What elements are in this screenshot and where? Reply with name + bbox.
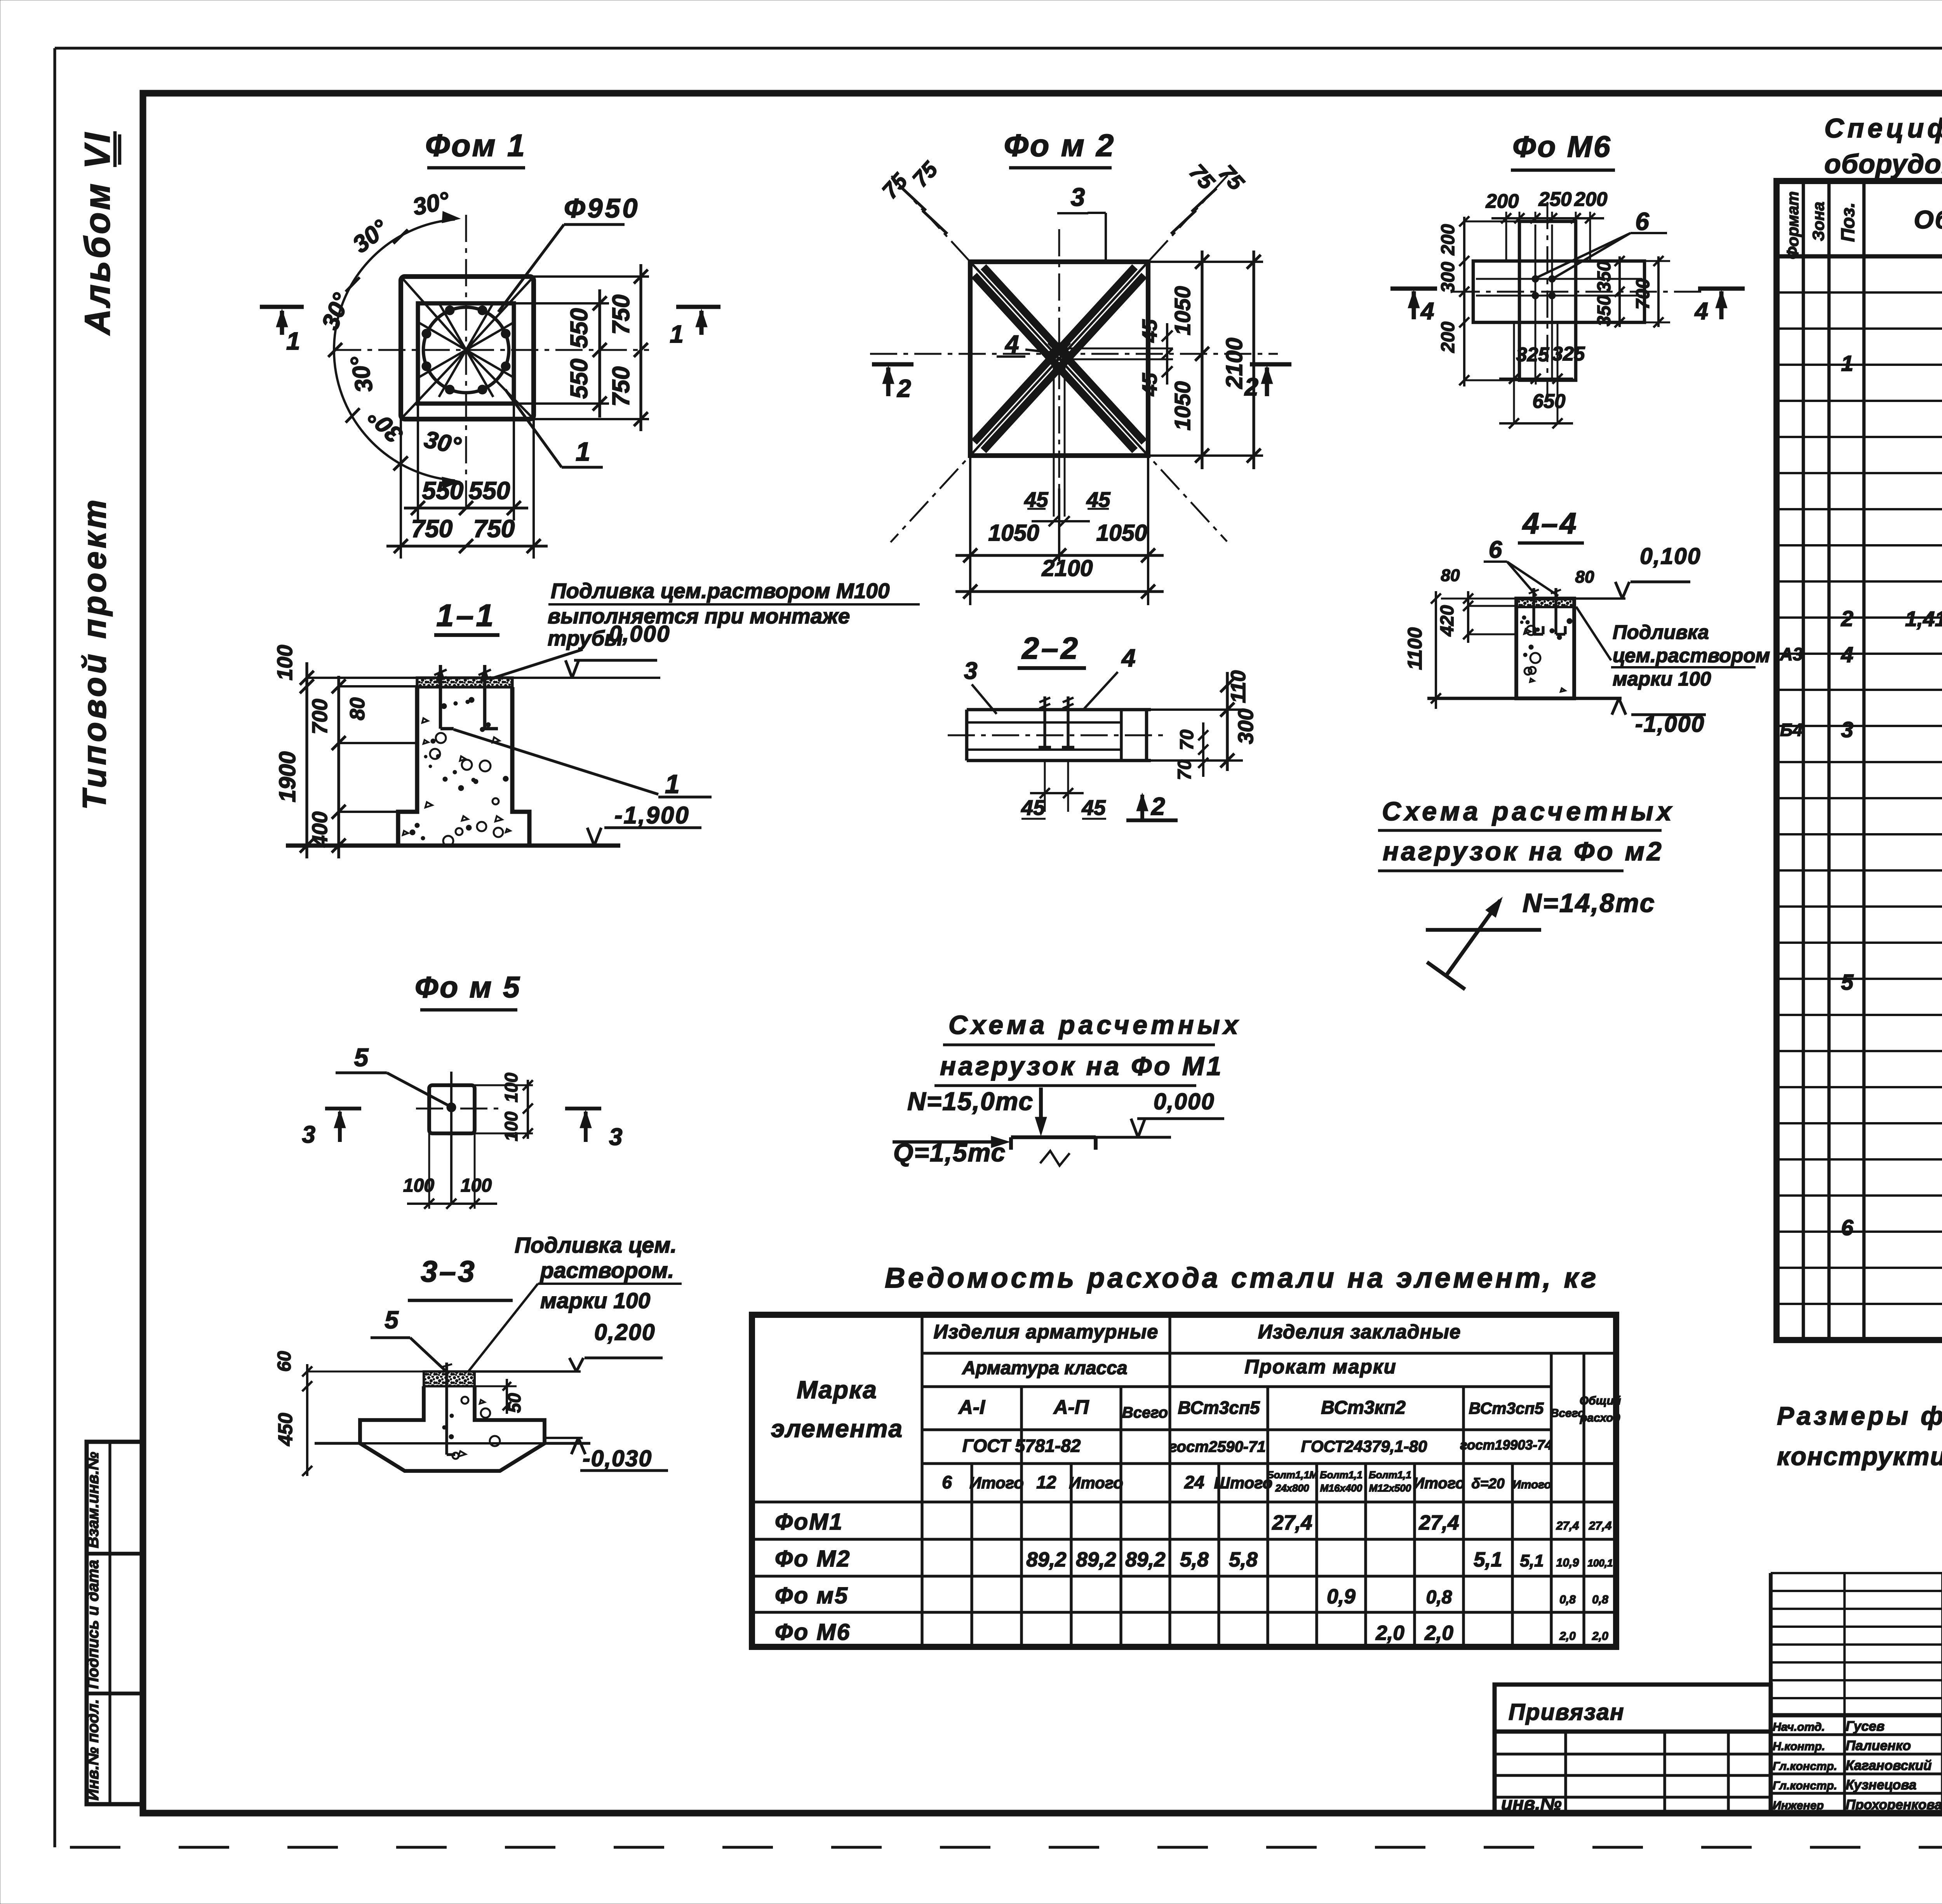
svg-text:5,1: 5,1 [1520,1551,1544,1570]
svg-text:0,100: 0,100 [1640,543,1701,569]
svg-text:Б4: Б4 [1780,720,1803,740]
svg-text:Прокат марки: Прокат марки [1244,1356,1397,1378]
svg-text:27,4: 27,4 [1418,1511,1459,1534]
svg-text:ВСт3кп2: ВСт3кп2 [1321,1398,1406,1418]
svg-text:0,000: 0,000 [1154,1089,1215,1114]
svg-text:750: 750 [411,515,453,543]
svg-text:1050: 1050 [1096,520,1147,546]
svg-text:100,1: 100,1 [1587,1557,1613,1569]
svg-text:Кагановский: Кагановский [1846,1758,1932,1773]
svg-text:Ф950: Ф950 [564,193,640,223]
svg-text:Арматура класса: Арматура класса [962,1358,1127,1378]
svg-text:инв.№: инв.№ [1501,1794,1562,1814]
svg-text:N=14,8тс: N=14,8тс [1523,888,1656,918]
svg-text:Фо м 2: Фо м 2 [1004,128,1115,163]
svg-text:45: 45 [1081,795,1106,820]
svg-text:ГОСТ 5781-82: ГОСТ 5781-82 [962,1436,1081,1456]
svg-text:50: 50 [504,1393,524,1413]
svg-text:Итого: Итого [1413,1475,1465,1492]
svg-text:1: 1 [286,327,300,355]
svg-text:5: 5 [354,1043,369,1072]
svg-text:0,9: 0,9 [1327,1585,1356,1608]
svg-text:Инв.№ подл.: Инв.№ подл. [84,1699,102,1800]
svg-text:марки 100: марки 100 [1613,668,1711,690]
svg-text:60: 60 [274,1351,295,1372]
svg-text:6: 6 [1841,1215,1853,1240]
svg-text:2: 2 [1841,606,1853,631]
svg-text:3: 3 [1071,183,1085,211]
svg-text:Подливка цем.раствором М100: Подливка цем.раствором М100 [551,579,890,603]
svg-text:гост19903-74: гост19903-74 [1460,1438,1552,1453]
svg-text:100: 100 [501,1111,521,1141]
svg-text:100: 100 [461,1175,492,1196]
svg-text:А3: А3 [1780,644,1803,664]
svg-text:δ=20: δ=20 [1471,1476,1505,1492]
svg-text:350: 350 [1594,295,1615,326]
svg-text:420: 420 [1437,605,1458,637]
svg-text:0,8: 0,8 [1592,1593,1608,1606]
svg-text:27,4: 27,4 [1556,1519,1579,1532]
svg-text:1: 1 [1841,351,1853,376]
svg-text:Штого: Штого [1214,1474,1273,1492]
svg-text:100: 100 [403,1175,434,1196]
svg-text:Итого: Итого [1069,1474,1123,1492]
svg-text:1: 1 [576,437,590,466]
svg-text:550: 550 [566,308,593,348]
svg-text:Общий: Общий [1580,1394,1621,1407]
svg-text:Подливка: Подливка [1613,621,1709,643]
svg-text:27,4: 27,4 [1589,1519,1612,1532]
svg-text:3: 3 [302,1121,315,1148]
svg-text:700: 700 [1633,278,1653,310]
svg-text:0,8: 0,8 [1559,1593,1576,1606]
svg-text:Гусев: Гусев [1846,1719,1885,1734]
svg-text:750: 750 [608,366,635,406]
svg-text:27,4: 27,4 [1272,1511,1312,1534]
svg-text:100: 100 [273,645,297,680]
svg-text:5,8: 5,8 [1229,1548,1258,1571]
svg-text:550: 550 [422,477,464,505]
svg-text:Формат: Формат [1784,191,1802,259]
svg-text:10,9: 10,9 [1556,1556,1579,1569]
svg-text:Гл.констр.: Гл.констр. [1773,1779,1837,1792]
svg-text:70: 70 [1175,759,1195,780]
svg-text:400: 400 [308,811,332,848]
svg-text:80: 80 [1441,566,1460,585]
svg-text:Марка: Марка [797,1376,877,1404]
svg-text:Изделия закладные: Изделия закладные [1258,1321,1461,1343]
svg-text:4: 4 [1841,642,1853,667]
svg-text:1050: 1050 [1170,286,1195,335]
svg-text:12: 12 [1036,1472,1056,1492]
svg-text:Фо м 5: Фо м 5 [415,971,521,1004]
svg-text:Н.контр.: Н.контр. [1773,1740,1825,1753]
svg-text:550: 550 [566,359,593,399]
svg-text:цем.раствором: цем.раствором [1613,644,1770,667]
svg-text:700: 700 [308,699,332,734]
svg-text:марки 100: марки 100 [540,1288,651,1313]
svg-text:-1,900: -1,900 [614,802,690,829]
svg-text:2,0: 2,0 [1424,1622,1453,1645]
svg-text:элемента: элемента [771,1415,903,1443]
svg-text:Фом 1: Фом 1 [425,128,526,163]
svg-text:Гл.констр.: Гл.констр. [1773,1760,1837,1773]
svg-text:250: 250 [1538,188,1571,210]
svg-text:Спецификация к фундаментам: Спецификация к фундаментам под [1824,113,1942,143]
svg-text:1900: 1900 [275,751,300,802]
svg-text:4: 4 [1694,298,1708,325]
svg-text:3–3: 3–3 [421,1255,476,1288]
svg-text:Итого: Итого [1512,1478,1551,1491]
svg-text:Подливка цем.: Подливка цем. [515,1233,677,1258]
svg-text:Палиенко: Палиенко [1846,1738,1911,1753]
svg-text:1050: 1050 [988,520,1039,546]
svg-text:650: 650 [1532,390,1565,412]
svg-text:-0,030: -0,030 [583,1446,652,1471]
svg-text:1100: 1100 [1404,627,1426,670]
svg-text:6: 6 [1635,207,1649,235]
svg-text:Фо М6: Фо М6 [1512,130,1612,164]
svg-text:Привязан: Привязан [1509,1699,1625,1725]
svg-text:80: 80 [1575,567,1594,587]
svg-text:Взам.инв.№: Взам.инв.№ [84,1452,102,1548]
svg-text:Схема расчетных: Схема расчетных [1382,797,1675,826]
svg-text:нагрузок на Фо м2: нагрузок на Фо м2 [1383,837,1664,866]
svg-text:нагрузок на Фо М1: нагрузок на Фо М1 [940,1051,1223,1081]
svg-text:Поз.: Поз. [1838,202,1858,242]
svg-text:45: 45 [1138,372,1161,396]
svg-text:350: 350 [1594,261,1615,292]
svg-text:5,1: 5,1 [1474,1548,1502,1571]
svg-text:110: 110 [1227,670,1250,703]
svg-text:300: 300 [1438,262,1458,293]
svg-text:0,8: 0,8 [1426,1587,1452,1608]
svg-text:45: 45 [1138,319,1161,343]
svg-text:550: 550 [469,477,510,505]
svg-text:Всего: Всего [1122,1404,1168,1421]
svg-text:2,0: 2,0 [1559,1630,1576,1643]
svg-text:2: 2 [897,374,911,402]
svg-text:Нач.отд.: Нач.отд. [1773,1721,1825,1733]
svg-text:325: 325 [1516,343,1549,365]
svg-text:Фо м5: Фо м5 [775,1583,849,1608]
svg-text:3: 3 [609,1124,622,1150]
svg-text:89,2: 89,2 [1076,1548,1116,1571]
svg-text:4: 4 [1420,298,1434,325]
svg-text:4: 4 [1121,644,1136,672]
svg-text:ВСт3сп5: ВСт3сп5 [1469,1399,1544,1417]
svg-text:1050: 1050 [1170,381,1195,430]
svg-text:ФоМ1: ФоМ1 [775,1509,843,1535]
svg-text:750: 750 [608,294,635,334]
svg-text:Подпись и дата: Подпись и дата [84,1560,102,1689]
svg-text:24: 24 [1184,1472,1204,1492]
svg-text:1: 1 [665,769,680,799]
svg-text:раствором.: раствором. [539,1258,674,1283]
svg-text:200: 200 [1438,322,1458,353]
svg-text:89,2: 89,2 [1026,1548,1066,1571]
svg-text:450: 450 [274,1413,296,1446]
svg-text:трубы: трубы [548,626,623,650]
svg-text:2,0: 2,0 [1375,1622,1404,1645]
svg-text:ГОСТ24379,1-80: ГОСТ24379,1-80 [1301,1437,1427,1455]
svg-text:0,200: 0,200 [594,1319,656,1345]
svg-text:1: 1 [670,320,684,348]
svg-text:гост2590-71: гост2590-71 [1169,1438,1265,1455]
svg-text:конструктивно.: конструктивно. [1777,1442,1942,1471]
svg-text:Типовой проект: Типовой проект [76,496,113,810]
svg-text:Прохоренкова: Прохоренкова [1846,1797,1942,1812]
svg-text:2,0: 2,0 [1592,1630,1608,1643]
svg-text:5,8: 5,8 [1180,1548,1209,1571]
svg-text:Итого: Итого [969,1474,1024,1492]
svg-text:оборудование ФоМ1, ФоМ2, ФоМ5: оборудование ФоМ1, ФоМ2, ФоМ5, ФоМ6 [1824,149,1942,179]
svg-text:2: 2 [1151,792,1165,820]
svg-text:89,2: 89,2 [1125,1548,1165,1571]
svg-text:5: 5 [1841,970,1854,995]
svg-text:выполняется при монтаже: выполняется при монтаже [548,604,850,628]
svg-text:4–4: 4–4 [1522,507,1578,540]
svg-text:Фо М2: Фо М2 [775,1546,851,1572]
svg-text:300: 300 [1234,708,1258,744]
svg-text:А-I: А-I [958,1396,986,1418]
svg-text:Альбом VI: Альбом VI [78,131,117,336]
svg-text:4: 4 [1004,330,1019,358]
svg-text:Болт1,1: Болт1,1 [1320,1469,1363,1481]
svg-text:Зона: Зона [1809,202,1827,241]
svg-text:3: 3 [1841,717,1853,742]
svg-text:А-П: А-П [1053,1396,1089,1418]
svg-text:2100: 2100 [1041,555,1093,581]
svg-text:200: 200 [1485,190,1519,212]
svg-text:6: 6 [1489,536,1502,563]
svg-text:2–2: 2–2 [1021,631,1080,665]
svg-text:ВСт3сп5: ВСт3сп5 [1178,1398,1260,1418]
svg-text:24х800: 24х800 [1275,1482,1309,1494]
svg-text:М12х500: М12х500 [1369,1482,1411,1494]
svg-text:200: 200 [1574,188,1607,210]
svg-text:45: 45 [1021,795,1046,820]
svg-text:6: 6 [942,1472,952,1492]
svg-text:Размеры фундаментов ФоМ5 и Ф: Размеры фундаментов ФоМ5 и ФоМ6 определе… [1777,1401,1942,1430]
svg-text:5: 5 [385,1306,399,1334]
svg-text:200: 200 [1438,224,1458,256]
svg-text:Обозначение: Обозначение [1914,205,1942,234]
svg-text:расход: расход [1580,1411,1620,1424]
svg-text:3: 3 [964,658,977,684]
svg-text:1,410-3 В.1: 1,410-3 В.1 [1905,607,1942,631]
svg-text:2100: 2100 [1222,338,1247,389]
svg-text:М16х400: М16х400 [1320,1482,1363,1494]
svg-text:100: 100 [501,1072,521,1102]
svg-text:1–1: 1–1 [436,598,496,633]
svg-text:325: 325 [1552,343,1585,365]
svg-text:Ведомость расхода стали на: Ведомость расхода стали на элемент, кг [885,1262,1599,1294]
svg-text:Инженер: Инженер [1773,1799,1824,1812]
svg-text:Изделия арматурные: Изделия арматурные [934,1321,1159,1343]
svg-text:70: 70 [1177,729,1197,750]
svg-text:750: 750 [473,515,515,543]
svg-text:Фо М6: Фо М6 [775,1619,851,1645]
svg-text:Кузнецова: Кузнецова [1846,1777,1916,1793]
svg-text:Болт1,1М: Болт1,1М [1267,1469,1318,1481]
svg-text:Болт1,1: Болт1,1 [1369,1469,1411,1481]
svg-text:80: 80 [346,698,369,721]
svg-text:N=15,0тс: N=15,0тс [907,1087,1034,1116]
svg-text:Схема расчетных: Схема расчетных [948,1010,1242,1040]
